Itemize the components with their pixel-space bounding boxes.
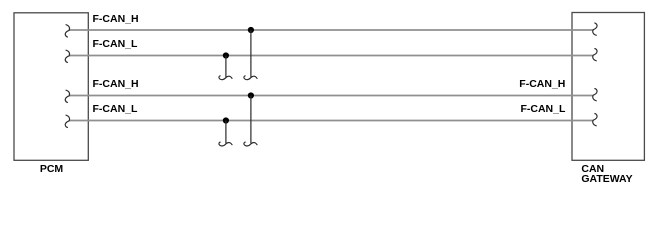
junction dot wire2: [223, 52, 229, 58]
svg-text:F-CAN_H: F-CAN_H: [93, 13, 139, 25]
junction dot wire3: [248, 92, 254, 98]
connector squiggle drop1 end: [244, 76, 257, 80]
box CAN GATEWAY: [572, 13, 644, 161]
wire F-CAN_L (4): [69, 120, 593, 122]
svg-text:F-CAN_L: F-CAN_L: [93, 103, 138, 115]
drop wire from wire4: [225, 121, 227, 144]
svg-text:F-CAN_H: F-CAN_H: [93, 78, 139, 90]
connector squiggle GATEWAY pin wire2: [593, 49, 597, 61]
box PCM: [14, 13, 88, 161]
svg-text:F-CAN_H: F-CAN_H: [519, 78, 565, 90]
svg-text:F-CAN_L: F-CAN_L: [93, 38, 138, 50]
svg-text:F-CAN_L: F-CAN_L: [520, 103, 565, 115]
connector squiggle PCM pin wire4: [65, 115, 69, 127]
connector squiggle drop4 end: [219, 142, 232, 146]
connector squiggle drop2 end: [219, 76, 232, 80]
connector squiggle PCM pin wire2: [65, 50, 69, 62]
connector squiggle PCM pin wire3: [65, 90, 69, 102]
connector squiggle GATEWAY pin wire4: [593, 114, 597, 126]
wire F-CAN_H (1): [69, 29, 593, 31]
svg-text:GATEWAY: GATEWAY: [581, 173, 632, 185]
wire F-CAN_H (3): [69, 95, 593, 97]
drop wire from wire3: [250, 96, 252, 144]
connector squiggle GATEWAY pin wire3: [593, 89, 597, 101]
junction dot wire1: [248, 27, 254, 33]
drop wire from wire2: [225, 56, 227, 78]
wire F-CAN_L (2): [69, 55, 593, 57]
connector squiggle drop3 end: [244, 142, 257, 146]
drop wire from wire1: [250, 30, 252, 77]
junction dot wire4: [223, 117, 229, 123]
connector squiggle PCM pin wire1: [65, 25, 69, 37]
svg-text:PCM: PCM: [40, 163, 64, 175]
connector squiggle GATEWAY pin wire1: [593, 23, 597, 35]
